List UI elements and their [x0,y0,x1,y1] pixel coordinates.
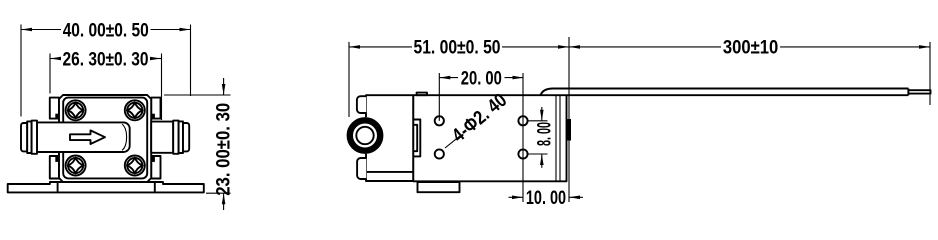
dim 20.00 [439,67,523,202]
tab bump top (side profile) [357,96,366,113]
base plate seam lines [57,182,59,192]
tab notch top-right [152,114,155,119]
svg-text:300±10: 300±10 [723,37,779,59]
dim 8.00 [528,107,556,168]
tab notch bottom-left [55,157,58,162]
dim 10.00 [509,187,584,209]
flow arrow [70,130,105,144]
svg-text:26. 30±0. 30: 26. 30±0. 30 [63,48,149,70]
head section [366,95,413,181]
head inner bottom line [366,171,413,173]
svg-text:40. 00±0. 50: 40. 00±0. 50 [63,19,149,41]
channel inner contour [122,124,126,150]
side tab top-right [151,98,160,119]
right barb ring mid [179,121,183,153]
tab notch bottom-right [152,157,155,162]
clip bracket [414,120,420,157]
cable bottom line [567,94,908,96]
cover plate [63,98,147,179]
dim 40.00±0.50 [21,19,191,116]
body seam line 1 [555,95,557,181]
screw top-left [66,100,86,120]
hole top-right [518,116,527,125]
screw bottom-left [66,156,86,176]
hole bottom-left [435,149,444,158]
pump body (chamfered) [59,95,151,182]
left barb ring inner [32,121,37,154]
side tab bottom-right [151,156,160,179]
svg-text:51. 00±0. 50: 51. 00±0. 50 [414,37,501,59]
inlet port outer ring [347,117,384,154]
dim 51.00±0.50 [349,37,569,117]
hole bottom-right [518,149,527,158]
dim 23.00±0.30 [164,78,234,210]
stripped wire end [908,90,930,93]
tab notch top-left [55,114,58,119]
svg-text:20. 00: 20. 00 [461,67,502,89]
cable end cap [907,89,909,96]
left barb ring mid [27,121,31,153]
pump base plate [8,182,204,192]
dim 300±10 [569,37,930,202]
svg-text:8. 00: 8. 00 [534,122,556,146]
flow channel tube [37,122,130,152]
right barb ring outer [183,123,189,151]
main body [413,95,566,181]
mounting foot [418,182,460,192]
side tab top-left [50,98,59,119]
connector bar on right edge [567,119,571,141]
leader 4-Φ2.40 [445,89,511,148]
dim 26.30±0.30 [50,48,162,120]
side tab bottom-left [50,156,59,179]
screw top-right [125,100,145,120]
svg-text:23. 00±0. 30: 23. 00±0. 30 [212,103,234,196]
inlet port inner circle [356,127,373,144]
hole top-left [435,116,444,125]
screw bottom-right [125,156,145,176]
raised tab on top edge [417,93,427,96]
cable top line with bend [541,89,909,96]
left barb ring outer [21,123,27,151]
tab bump bottom (side profile) [357,158,366,179]
right barb ring inner [173,121,178,154]
svg-text:10. 00: 10. 00 [526,187,566,209]
body seam line 2 [559,95,561,181]
right barb sleeve [151,122,173,153]
